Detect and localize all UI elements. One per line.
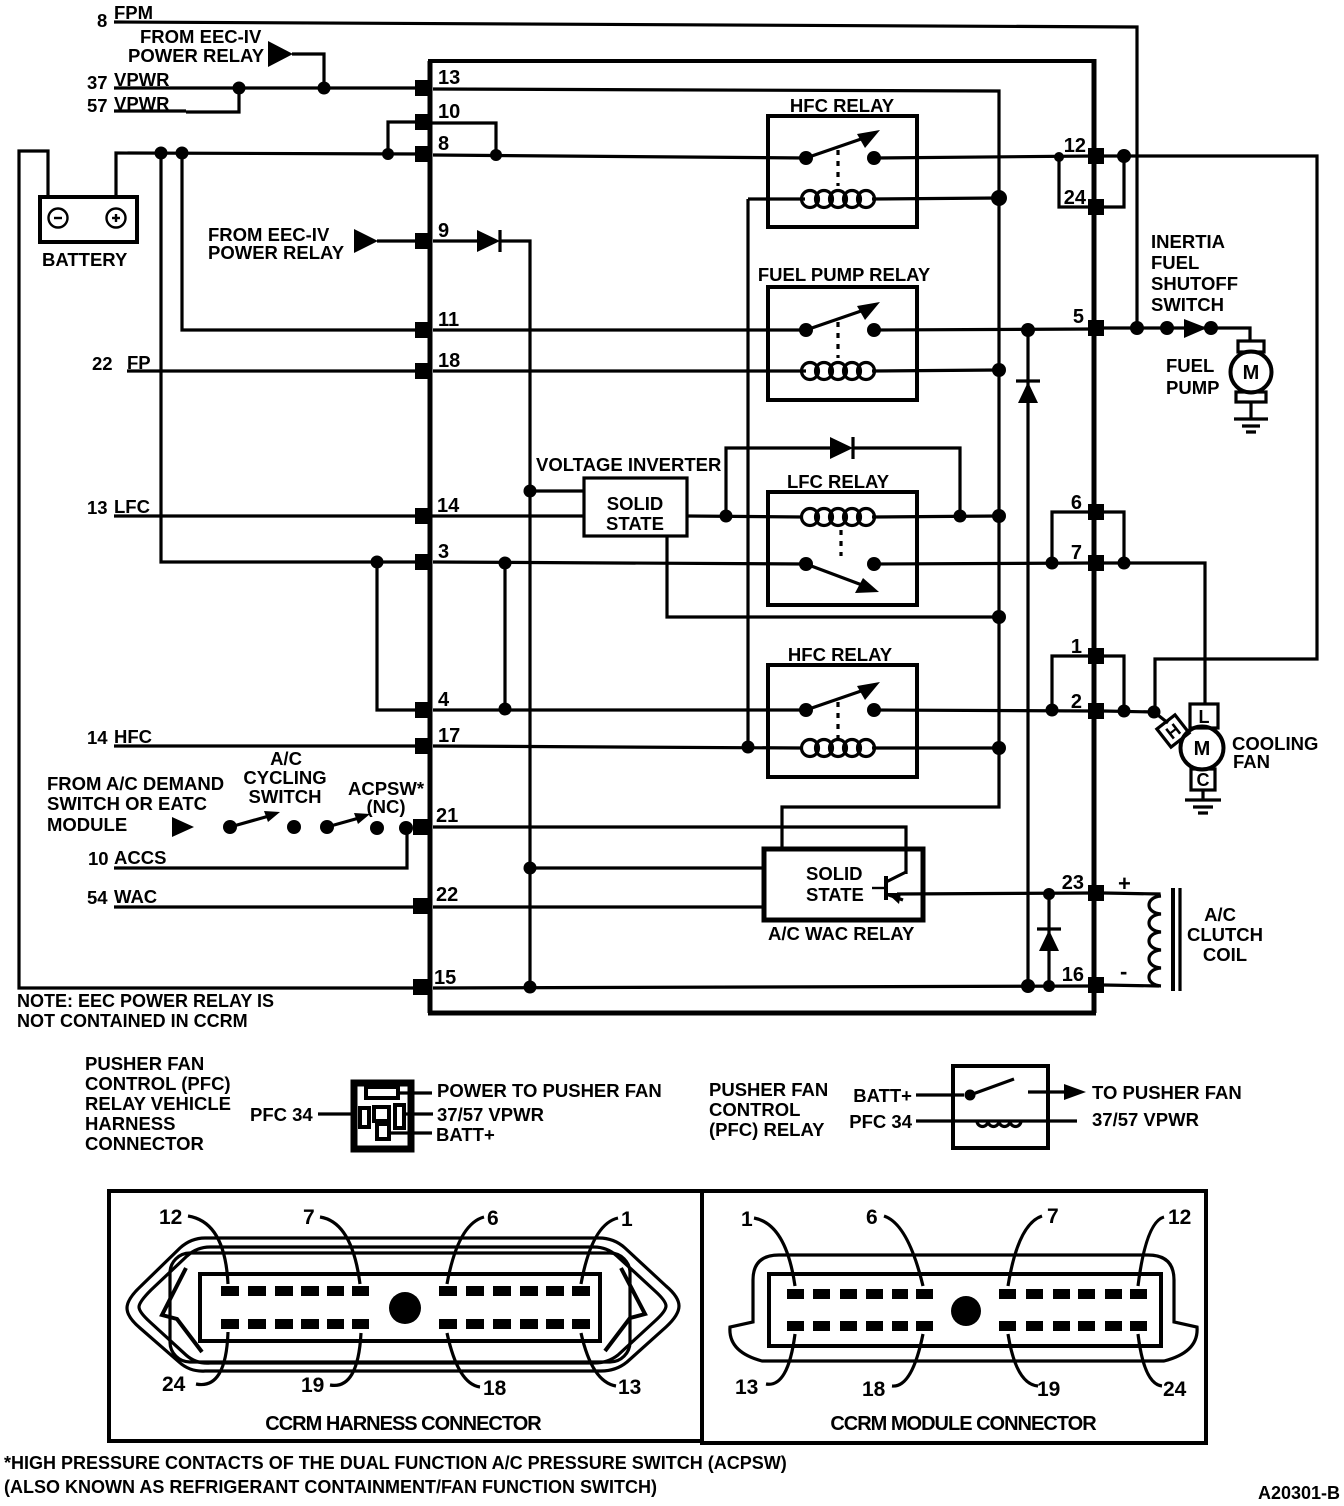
- svg-text:HFC RELAY: HFC RELAY: [788, 644, 893, 665]
- svg-text:VPWR: VPWR: [114, 69, 170, 90]
- svg-text:FROM A/C DEMAND: FROM A/C DEMAND: [47, 773, 224, 794]
- svg-text:FROM EEC-IV: FROM EEC-IV: [140, 26, 262, 47]
- svg-text:C: C: [1197, 770, 1210, 790]
- svg-text:18: 18: [862, 1378, 886, 1401]
- svg-text:FP: FP: [127, 352, 151, 373]
- svg-text:VOLTAGE INVERTER: VOLTAGE INVERTER: [536, 454, 721, 475]
- svg-text:22: 22: [92, 353, 113, 374]
- svg-text:COIL: COIL: [1203, 944, 1247, 965]
- svg-text:CCRM HARNESS CONNECTOR: CCRM HARNESS CONNECTOR: [265, 1413, 542, 1435]
- svg-text:CYCLING: CYCLING: [243, 767, 326, 788]
- svg-text:23: 23: [1062, 872, 1084, 894]
- svg-text:37: 37: [87, 72, 108, 93]
- svg-text:1: 1: [1071, 636, 1082, 658]
- svg-text:1: 1: [741, 1208, 753, 1231]
- svg-text:11: 11: [438, 309, 459, 331]
- svg-text:POWER RELAY: POWER RELAY: [128, 45, 265, 66]
- svg-text:13: 13: [618, 1376, 641, 1399]
- svg-text:A/C: A/C: [270, 748, 302, 769]
- svg-text:+: +: [1118, 871, 1131, 896]
- svg-text:8: 8: [97, 10, 107, 31]
- svg-text:1: 1: [621, 1208, 633, 1231]
- svg-text:PUMP: PUMP: [1166, 377, 1219, 398]
- svg-text:6: 6: [487, 1207, 499, 1230]
- svg-text:(NC): (NC): [366, 796, 405, 817]
- svg-text:6: 6: [866, 1206, 878, 1229]
- svg-text:18: 18: [483, 1377, 507, 1400]
- svg-text:SOLID: SOLID: [607, 493, 664, 514]
- svg-text:SWITCH: SWITCH: [249, 786, 322, 807]
- svg-text:ACCS: ACCS: [114, 847, 166, 868]
- svg-text:LFC: LFC: [114, 496, 150, 517]
- svg-text:HFC: HFC: [114, 726, 152, 747]
- svg-text:3: 3: [438, 541, 449, 563]
- svg-text:54: 54: [87, 887, 108, 908]
- svg-text:2: 2: [1071, 691, 1082, 713]
- svg-text:16: 16: [1062, 964, 1084, 986]
- svg-text:19: 19: [301, 1374, 324, 1397]
- svg-text:MODULE: MODULE: [47, 814, 127, 835]
- svg-text:RELAY VEHICLE: RELAY VEHICLE: [85, 1093, 231, 1114]
- svg-text:12: 12: [1168, 1206, 1191, 1229]
- svg-text:10: 10: [438, 101, 460, 123]
- svg-text:18: 18: [438, 350, 460, 372]
- svg-text:24: 24: [1064, 187, 1087, 209]
- svg-text:L: L: [1199, 707, 1210, 727]
- svg-text:15: 15: [434, 967, 456, 989]
- svg-text:*HIGH PRESSURE CONTACTS OF THE: *HIGH PRESSURE CONTACTS OF THE DUAL FUNC…: [4, 1453, 787, 1473]
- svg-text:PUSHER FAN: PUSHER FAN: [709, 1079, 828, 1100]
- svg-text:4: 4: [438, 689, 450, 711]
- svg-text:PFC 34: PFC 34: [849, 1111, 912, 1132]
- svg-text:(PFC) RELAY: (PFC) RELAY: [709, 1119, 825, 1140]
- svg-text:STATE: STATE: [806, 884, 864, 905]
- svg-text:A20301-B: A20301-B: [1258, 1483, 1340, 1503]
- svg-text:M: M: [1243, 362, 1260, 384]
- svg-text:10: 10: [88, 848, 109, 869]
- svg-text:SHUTOFF: SHUTOFF: [1151, 273, 1238, 294]
- svg-text:POWER RELAY: POWER RELAY: [208, 242, 345, 263]
- svg-text:SOLID: SOLID: [806, 863, 863, 884]
- svg-text:FPM: FPM: [114, 2, 153, 23]
- svg-text:21: 21: [436, 805, 458, 827]
- svg-text:BATT+: BATT+: [436, 1124, 495, 1145]
- svg-text:CONNECTOR: CONNECTOR: [85, 1133, 204, 1154]
- svg-text:5: 5: [1073, 306, 1084, 328]
- svg-text:POWER TO PUSHER FAN: POWER TO PUSHER FAN: [437, 1080, 662, 1101]
- svg-text:NOTE: EEC POWER RELAY IS: NOTE: EEC POWER RELAY IS: [17, 991, 274, 1011]
- svg-text:13: 13: [735, 1376, 758, 1399]
- svg-text:FUEL: FUEL: [1151, 252, 1199, 273]
- svg-text:HFC RELAY: HFC RELAY: [790, 95, 895, 116]
- svg-text:SWITCH: SWITCH: [1151, 294, 1224, 315]
- svg-text:7: 7: [1071, 542, 1082, 564]
- svg-text:12: 12: [159, 1206, 182, 1229]
- svg-text:NOT CONTAINED IN CCRM: NOT CONTAINED IN CCRM: [17, 1011, 248, 1031]
- svg-text:19: 19: [1037, 1378, 1060, 1401]
- svg-text:M: M: [1194, 738, 1211, 760]
- svg-text:STATE: STATE: [606, 513, 664, 534]
- svg-text:CONTROL (PFC): CONTROL (PFC): [85, 1073, 231, 1094]
- svg-text:A/C: A/C: [1204, 904, 1236, 925]
- svg-text:14: 14: [87, 727, 108, 748]
- svg-text:57: 57: [87, 95, 108, 116]
- svg-text:TO PUSHER FAN: TO PUSHER FAN: [1092, 1082, 1242, 1103]
- svg-text:13: 13: [438, 67, 460, 89]
- svg-text:-: -: [1120, 959, 1127, 984]
- svg-text:7: 7: [1047, 1205, 1059, 1228]
- svg-text:22: 22: [436, 884, 458, 906]
- svg-text:FAN: FAN: [1233, 751, 1270, 772]
- svg-text:7: 7: [303, 1206, 315, 1229]
- svg-text:A/C WAC RELAY: A/C WAC RELAY: [768, 923, 915, 944]
- svg-text:24: 24: [1163, 1378, 1187, 1401]
- svg-text:LFC RELAY: LFC RELAY: [787, 471, 890, 492]
- svg-text:INERTIA: INERTIA: [1151, 231, 1225, 252]
- svg-text:PUSHER FAN: PUSHER FAN: [85, 1053, 204, 1074]
- svg-text:VPWR: VPWR: [114, 93, 170, 114]
- svg-text:PFC 34: PFC 34: [250, 1104, 313, 1125]
- svg-text:CLUTCH: CLUTCH: [1187, 924, 1263, 945]
- svg-text:CONTROL: CONTROL: [709, 1099, 800, 1120]
- svg-text:17: 17: [438, 725, 460, 747]
- svg-text:37/57 VPWR: 37/57 VPWR: [437, 1104, 544, 1125]
- svg-text:BATTERY: BATTERY: [42, 249, 128, 270]
- svg-text:14: 14: [437, 495, 460, 517]
- svg-text:8: 8: [438, 133, 449, 155]
- svg-text:13: 13: [87, 497, 108, 518]
- svg-text:37/57 VPWR: 37/57 VPWR: [1092, 1109, 1199, 1130]
- svg-text:CCRM MODULE CONNECTOR: CCRM MODULE CONNECTOR: [830, 1413, 1097, 1435]
- svg-text:24: 24: [162, 1373, 186, 1396]
- svg-text:HARNESS: HARNESS: [85, 1113, 175, 1134]
- svg-text:WAC: WAC: [114, 886, 157, 907]
- svg-text:(ALSO KNOWN AS REFRIGERANT CON: (ALSO KNOWN AS REFRIGERANT CONTAINMENT/F…: [4, 1477, 657, 1497]
- svg-text:BATT+: BATT+: [853, 1085, 912, 1106]
- svg-text:6: 6: [1071, 492, 1082, 514]
- svg-text:FUEL: FUEL: [1166, 355, 1214, 376]
- svg-text:FUEL PUMP RELAY: FUEL PUMP RELAY: [758, 264, 931, 285]
- svg-text:9: 9: [438, 220, 449, 242]
- svg-text:SWITCH OR EATC: SWITCH OR EATC: [47, 793, 207, 814]
- svg-text:12: 12: [1064, 135, 1086, 157]
